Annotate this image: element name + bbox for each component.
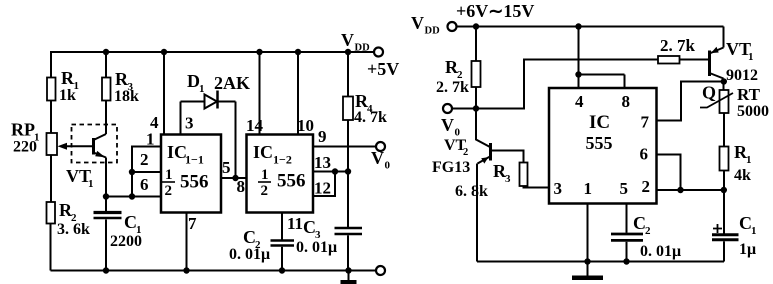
svg-text:2. 7k: 2. 7k (660, 36, 696, 55)
capacitor C1 right (712, 213, 757, 262)
dashed box VT1 (72, 125, 118, 163)
svg-text:6: 6 (640, 145, 649, 164)
node bus pin2 (129, 169, 135, 175)
svg-text:0. 01μ: 0. 01μ (296, 239, 337, 256)
svg-text:10: 10 (297, 116, 314, 135)
node pin6 pin2 (677, 187, 683, 193)
resistor R4 (343, 52, 387, 228)
wire left branch chain (50, 52, 53, 271)
node bus pin6 (129, 193, 135, 199)
wire VT2 emitter vertical (476, 164, 478, 262)
wire emitter vertical (105, 158, 107, 213)
svg-text:1−2: 1−2 (273, 153, 292, 167)
resistor R1 (47, 68, 79, 104)
pin 7 wire IC1-1 (187, 213, 198, 271)
resistor R3 right (455, 161, 549, 200)
svg-text:2200: 2200 (110, 233, 142, 250)
svg-text:3: 3 (185, 114, 194, 133)
svg-text:+6V∼15V: +6V∼15V (456, 1, 534, 21)
svg-text:1: 1 (751, 225, 757, 237)
svg-text:V: V (411, 13, 424, 33)
node C2 rail (279, 267, 285, 273)
capacitor C1 left (94, 212, 143, 271)
pin 5 wire 555 (626, 204, 628, 233)
pin 1 wire 555 (587, 204, 589, 262)
transistor VT2 (432, 109, 524, 177)
svg-text:1: 1 (146, 130, 155, 149)
svg-text:14: 14 (246, 116, 264, 135)
svg-text:9: 9 (318, 127, 327, 146)
svg-text:5: 5 (620, 179, 629, 198)
svg-text:6: 6 (140, 175, 149, 194)
svg-text:1: 1 (748, 51, 754, 63)
resistor 2.7k horizontal (658, 36, 710, 64)
svg-text:13: 13 (314, 153, 331, 172)
node pin1 rail (584, 258, 590, 264)
resistor R3 (102, 69, 139, 105)
terminal Vo left (371, 142, 391, 172)
IC 555 box (549, 88, 657, 204)
wire pin 6 path (657, 155, 681, 191)
node R2 rail (473, 23, 479, 29)
wire staple pins 4-8 (579, 27, 625, 89)
svg-text:3: 3 (505, 173, 511, 185)
svg-text:8: 8 (622, 92, 631, 111)
svg-text:556: 556 (180, 172, 209, 193)
pin 10 wire IC1-2 (297, 52, 314, 135)
node pin14 rail (256, 49, 262, 55)
svg-text:1: 1 (88, 178, 94, 190)
svg-text:18k: 18k (114, 88, 139, 105)
pin 12 loop wire (313, 172, 335, 198)
svg-text:6. 8k: 6. 8k (455, 183, 488, 200)
wire R3 collector vertical (105, 52, 107, 134)
svg-text:RP: RP (11, 120, 35, 140)
thermistor RT (700, 83, 769, 121)
capacitor C2 right (611, 213, 681, 262)
svg-text:DD: DD (425, 26, 441, 37)
wire bottom rail right (477, 261, 724, 263)
svg-text:IC: IC (167, 142, 187, 162)
node R4 rail (345, 49, 351, 55)
wire top rail left (50, 51, 374, 53)
svg-text:1: 1 (746, 154, 752, 166)
svg-text:220: 220 (13, 139, 37, 156)
terminal bottom left (376, 266, 385, 275)
wire RT to R1 (723, 113, 725, 147)
diode D1 (181, 71, 251, 109)
svg-text:1μ: 1μ (739, 241, 756, 258)
svg-text:1: 1 (165, 167, 173, 183)
svg-text:2: 2 (261, 183, 269, 199)
svg-text:2: 2 (165, 183, 173, 199)
svg-text:FG13: FG13 (432, 159, 470, 176)
svg-text:IC: IC (253, 142, 273, 162)
capacitor C3 (296, 217, 362, 271)
svg-text:2: 2 (140, 150, 149, 169)
wire D1 cathode vertical (235, 102, 237, 179)
svg-text:1: 1 (199, 83, 205, 95)
node C3 rail (345, 267, 351, 273)
wire pin5 to pin8 (221, 158, 247, 196)
pin 14 wire IC1-2 (246, 52, 264, 135)
terminal VDD left (341, 30, 399, 79)
resistor R1 right (720, 142, 752, 234)
pin 11 wire IC1-2 (282, 213, 303, 241)
terminal Vo right (441, 104, 476, 139)
svg-text:V: V (441, 115, 454, 135)
svg-text:1k: 1k (59, 87, 76, 104)
op-amp IC1-1 box (161, 135, 221, 213)
node C1 top (103, 193, 109, 199)
svg-text:556: 556 (277, 171, 306, 192)
ground left (341, 271, 357, 284)
svg-text:4k: 4k (734, 167, 751, 184)
node Vo right (473, 105, 479, 111)
transistor VT1 right (710, 27, 759, 91)
wire pin 2 path (657, 189, 724, 191)
svg-text:9012: 9012 (726, 67, 758, 84)
svg-text:2AK: 2AK (214, 73, 250, 93)
svg-text:Q: Q (702, 83, 716, 103)
svg-text:2: 2 (463, 147, 468, 158)
svg-text:V: V (341, 30, 354, 50)
svg-text:+5V: +5V (367, 59, 399, 79)
wire pin 7 path (657, 82, 724, 121)
wire top rail right (457, 26, 724, 28)
svg-text:555: 555 (586, 133, 613, 153)
node pin7 rail (183, 267, 189, 273)
node staple rail (575, 23, 581, 29)
wire bottom rail left (51, 270, 377, 272)
node pin2 R1 (721, 187, 727, 193)
node pin13 bus (345, 168, 351, 174)
capacitor C2 left (229, 227, 294, 271)
svg-text:8: 8 (237, 177, 246, 196)
svg-text:11: 11 (287, 214, 303, 233)
svg-text:12: 12 (314, 179, 331, 198)
svg-text:1: 1 (261, 167, 269, 183)
node R3 top (103, 49, 109, 55)
terminal VDD right (411, 13, 457, 37)
wire pins 1-2-6 bus (106, 147, 161, 197)
svg-text:4. 7k: 4. 7k (354, 109, 387, 126)
resistor R2 left (47, 200, 91, 238)
resistor R2 right (436, 27, 481, 109)
svg-text:4: 4 (575, 92, 584, 111)
pin 13 wire IC1-2 (313, 153, 348, 172)
wiper arrow RP1 (58, 143, 94, 150)
svg-text:5: 5 (222, 158, 231, 177)
svg-text:2. 7k: 2. 7k (436, 79, 469, 96)
svg-text:1: 1 (584, 179, 593, 198)
svg-text:0: 0 (385, 160, 391, 172)
svg-text:3. 6k: 3. 6k (57, 221, 90, 238)
svg-text:0. 01μ: 0. 01μ (640, 243, 681, 260)
pin 3 wire IC1-1 (181, 102, 194, 135)
potentiometer RP1 (11, 120, 57, 156)
svg-text:2: 2 (645, 225, 651, 237)
svg-text:0. 01μ: 0. 01μ (229, 246, 270, 263)
node staple (575, 71, 581, 77)
svg-text:5000: 5000 (737, 103, 769, 120)
node pin4 rail (161, 49, 167, 55)
svg-text:2: 2 (642, 177, 651, 196)
svg-text:IC: IC (589, 112, 610, 133)
pin 9 wire IC1-2 (313, 127, 376, 147)
svg-text:RT: RT (737, 85, 761, 104)
svg-text:7: 7 (188, 214, 197, 233)
svg-text:3: 3 (554, 179, 563, 198)
node collector RT (721, 78, 727, 84)
svg-text:7: 7 (641, 113, 650, 132)
node C1 bottom rail (103, 267, 109, 273)
svg-text:1−1: 1−1 (185, 153, 204, 167)
svg-text:DD: DD (355, 43, 371, 54)
node C2 rail right (623, 258, 629, 264)
svg-text:V: V (371, 148, 384, 168)
pin 4 wire IC1-1 (150, 52, 164, 135)
wire Vo node to 2.7k (476, 60, 658, 109)
op-amp IC1-2 box (247, 135, 314, 213)
node pin13 loop (332, 168, 338, 174)
transistor VT1 (66, 134, 106, 190)
ground right (572, 262, 603, 278)
node pin10 rail (295, 49, 301, 55)
node pin5-pin8 (232, 175, 238, 181)
